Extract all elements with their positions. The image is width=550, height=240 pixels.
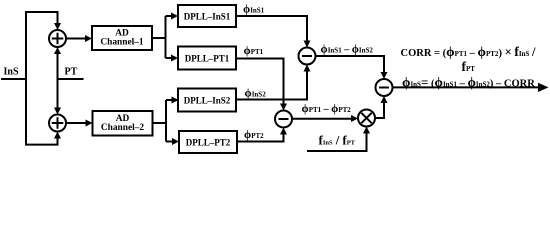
- wire subtractor S2 output arrow: [393, 83, 549, 92]
- multiplier M1: [358, 110, 375, 127]
- equation CORR line 2 denominator fPT: [462, 59, 476, 74]
- wire fInS/fPT input to multiplier M1 bottom: [307, 127, 370, 152]
- wire DPLL-PT1 output to subtractor S3 top: [236, 59, 287, 111]
- wire InS top branch to adder A1: [25, 12, 61, 30]
- node InS input label: [4, 67, 19, 78]
- wire subtractor S1 output to subtractor S2 top: [316, 56, 388, 79]
- svg-text:Channel–1: Channel–1: [100, 38, 144, 48]
- block AD Channel-2: [93, 111, 153, 136]
- svg-text:DPLL–InS1: DPLL–InS1: [184, 12, 231, 22]
- wire DPLL-InS2 output to subtractor S1 bottom: [236, 65, 311, 100]
- block DPLL-PT1 U2: [178, 47, 236, 70]
- wire InS bus vertical: [25, 12, 27, 146]
- equation phi_InS result line: [402, 75, 535, 90]
- wire InS lead: [1, 78, 26, 80]
- svg-text:DPLL–PT2: DPLL–PT2: [186, 138, 231, 148]
- subtractor S1: [299, 48, 316, 65]
- block DPLL-InS1 U1: [178, 5, 236, 27]
- label phi_InS1 minus phi_InS2: [321, 44, 374, 56]
- wire junction AD1 split to DPLL-InS1 and DPLL-PT1: [152, 13, 178, 62]
- subtractor S3: [275, 111, 292, 128]
- subtractor S2: [376, 79, 393, 96]
- wire adder A1 to AD Channel-1: [66, 35, 92, 42]
- svg-text:Channel–2: Channel–2: [101, 123, 145, 133]
- adder A1: [49, 30, 66, 47]
- adder A2: [49, 115, 66, 132]
- svg-text:DPLL–InS2: DPLL–InS2: [184, 96, 231, 106]
- label phi_InS1: [243, 3, 265, 15]
- label phi_InS2: [245, 88, 267, 100]
- label fInS / fPT: [319, 133, 356, 148]
- label phi_PT1 minus phi_PT2: [302, 103, 352, 115]
- wire adder A2 to AD Channel-2: [66, 120, 93, 127]
- wire DPLL-InS1 output to subtractor S1 top: [236, 16, 311, 48]
- wire InS bottom branch to adder A2: [26, 132, 61, 145]
- wire PT bus vertical between adders: [54, 47, 61, 115]
- equation CORR line 1: [401, 44, 536, 59]
- wire multiplier M1 output to subtractor S2 bottom: [375, 96, 388, 118]
- wire PT lead: [58, 78, 84, 80]
- svg-text:PT: PT: [65, 67, 78, 78]
- block DPLL-InS2 U3: [178, 89, 236, 112]
- svg-text:InS: InS: [4, 67, 19, 78]
- svg-text:DPLL–PT1: DPLL–PT1: [185, 54, 230, 64]
- wire subtractor S3 output to multiplier M1: [292, 115, 358, 122]
- node PT input label: [65, 67, 78, 78]
- wire junction AD2 split to DPLL-InS2 and DPLL-PT2: [153, 97, 180, 146]
- label phi_PT2: [244, 129, 264, 141]
- wire DPLL-PT2 output to subtractor S3 bottom: [237, 128, 287, 142]
- block DPLL-PT2 U4: [179, 131, 237, 153]
- label phi_PT1: [244, 45, 264, 57]
- block AD Channel-1: [92, 26, 152, 50]
